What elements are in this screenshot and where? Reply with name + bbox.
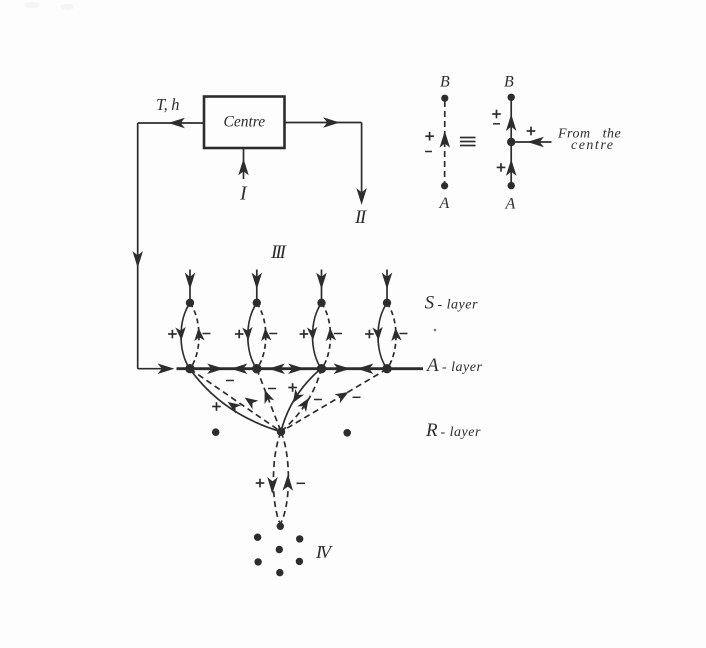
S2 label minus (269, 333, 277, 335)
wire II vertical (361, 123, 363, 193)
arrowhead up input I (240, 162, 247, 174)
A bus arrowhead seg3 left (360, 365, 372, 372)
label minus A1-R (226, 380, 234, 382)
legend left arrowhead up (441, 134, 448, 146)
S2-A2 solid curve (248, 303, 257, 369)
legend left dashed wire A to B (444, 101, 446, 183)
arrowhead left from centre (530, 138, 542, 145)
node IV lower-left (254, 558, 261, 565)
arrowhead A1-R dashed (245, 396, 256, 406)
A bus arrowhead seg3 right (336, 365, 348, 372)
node IV upper-right (296, 535, 303, 542)
svg-text:B: B (440, 74, 450, 91)
arrowhead right into A-layer (160, 365, 172, 372)
wire R-IV dashed right (280, 432, 288, 524)
node S4 (383, 299, 391, 307)
wire A1-R solid (190, 369, 281, 432)
S4-A4 up arrowhead (392, 330, 399, 339)
arrowhead A2-R dashed (262, 391, 271, 401)
node R right neighbour (343, 429, 351, 437)
A-layer bus wire (177, 367, 424, 370)
node A2 (252, 364, 261, 373)
arrowhead A4-R dashed (337, 390, 348, 400)
S3 label plus (300, 330, 309, 339)
A bus arrowhead seg2 right (291, 365, 303, 372)
legend left label plus (425, 132, 434, 141)
legend right mid node (507, 138, 515, 146)
S3-A3 solid curve (313, 303, 322, 369)
block U1 Centre box (204, 97, 285, 149)
A bus arrowhead seg1 left (234, 365, 246, 372)
wire from the centre (513, 141, 552, 143)
node IV upper-left (254, 534, 261, 541)
legend right wire B to A (510, 97, 512, 185)
label minus A3-R (314, 399, 322, 401)
wire feedback to A-layer (138, 368, 164, 370)
arrowhead A1-R solid (228, 400, 239, 410)
wire left output of Centre (138, 122, 204, 124)
label plus A3-R (288, 383, 297, 392)
label minus A4-R (353, 396, 361, 398)
arrowhead down end of II (358, 191, 365, 203)
svg-text:B: B (504, 73, 514, 90)
svg-text:centre: centre (571, 138, 614, 153)
wire input I into Centre (243, 149, 245, 180)
legend right arrowhead lower (508, 162, 515, 174)
node A3 (317, 364, 326, 373)
node IV lower-right (296, 558, 303, 565)
svg-text:T, h: T, h (156, 95, 179, 114)
arrowhead A3-R solid (291, 392, 301, 403)
S2-A2 up arrowhead (262, 330, 269, 339)
legend right node A (508, 182, 515, 189)
speck (434, 329, 437, 332)
S1-A1 dashed curve (190, 303, 199, 369)
wire right output of Centre (285, 122, 362, 124)
arrowhead right on wire II (326, 119, 338, 126)
S1-A1 up arrowhead (195, 330, 202, 339)
S1-A1 down arrowhead (177, 329, 184, 338)
label plus R-IV (256, 479, 265, 488)
S4-A4 down arrowhead (374, 329, 381, 338)
S3-A3 up arrowhead (327, 330, 334, 339)
arrowhead S2 (253, 275, 260, 287)
legend right node B (508, 94, 515, 101)
S4 label minus (400, 333, 408, 335)
S column 1 input wire (189, 270, 191, 301)
S1 label minus (203, 333, 211, 335)
S2-A2 down arrowhead (244, 329, 251, 338)
S4-A4 solid curve (378, 303, 387, 369)
node S1 (186, 299, 194, 307)
S2-A2 dashed curve (257, 303, 266, 369)
arrowhead S3 (318, 275, 325, 287)
wire feedback vertical (137, 123, 139, 369)
S2 label plus (235, 330, 244, 339)
node S3 (317, 299, 325, 307)
arrowhead S4 (383, 275, 390, 287)
arrowhead left on wire (171, 119, 183, 126)
label minus A2-R (268, 388, 276, 390)
A bus arrowhead seg2 left (271, 365, 283, 372)
legend right label plus upper (492, 110, 501, 119)
legend right label minus upper (493, 123, 500, 125)
wire A3-R solid (281, 368, 322, 432)
node IV centre (276, 546, 283, 553)
svg-text:A: A (505, 196, 516, 213)
node A4 (382, 364, 391, 373)
legend left node A (441, 182, 448, 189)
S column 3 input wire (321, 270, 323, 301)
legend right label plus lower (497, 163, 506, 172)
wire A3-R dashed (281, 368, 322, 432)
legend left small dash (425, 151, 432, 153)
svg-text:I: I (239, 183, 248, 205)
node IV bottom (276, 569, 283, 576)
legend left node B (441, 95, 448, 102)
S1 label plus (168, 330, 177, 339)
label plus A1-R (212, 402, 221, 411)
arrowhead down on feedback (134, 254, 141, 266)
wire A4-R dashed (281, 369, 387, 432)
S column 2 input wire (256, 270, 258, 301)
node A1 (185, 364, 194, 373)
label minus R-IV (297, 482, 306, 484)
wire R-IV dashed left (273, 432, 281, 524)
arrowhead A3-R dashed (300, 398, 310, 409)
node S2 (253, 299, 261, 307)
arrowhead S1 (186, 275, 193, 287)
arrowhead down R-IV left (269, 479, 276, 491)
S4 label plus (365, 330, 374, 339)
S3-A3 down arrowhead (309, 329, 316, 338)
S4-A4 dashed curve (387, 303, 396, 369)
label plus from centre (527, 127, 536, 136)
S1-A1 solid curve (181, 303, 190, 369)
wire A2-R dashed (257, 369, 281, 432)
S3-A3 dashed curve (322, 303, 331, 369)
faint scan smudge (24, 2, 40, 8)
legend right arrowhead upper (508, 117, 515, 129)
S3 label minus (334, 333, 342, 335)
wire A1-R dashed (190, 369, 281, 432)
svg-text:Centre: Centre (223, 113, 265, 130)
A bus arrowhead seg1 right (210, 365, 222, 372)
node IV top (277, 523, 284, 530)
node R left neighbour (212, 428, 220, 436)
svg-text:A: A (439, 195, 450, 212)
arrowhead up R-IV right (284, 477, 291, 489)
equivalence sign (460, 138, 476, 146)
node R (277, 428, 285, 436)
S column 4 input wire (386, 270, 388, 301)
